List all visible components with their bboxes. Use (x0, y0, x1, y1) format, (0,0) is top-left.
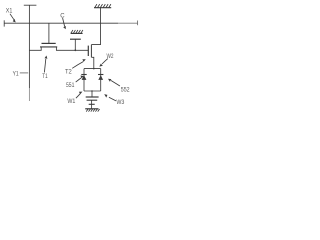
leader arrow from W2 to T2 source node (99, 59, 108, 67)
transistor T1 gate bar (42, 42, 56, 44)
wire: cell left branch (83, 69, 85, 91)
svg-text:551: 551 (66, 82, 75, 89)
terminal tick left end of word line (3, 20, 5, 26)
leader dash from Y1 to bit line (20, 72, 28, 74)
diode 552 triangle (98, 75, 103, 80)
wire: cell top rail (84, 68, 101, 70)
ground hatched bar (85, 109, 99, 112)
wire: T2 source lead down to cell (91, 57, 93, 68)
svg-text:T1: T1 (42, 73, 48, 80)
wire: word line X1 bus (4, 22, 118, 24)
svg-text:X1: X1 (6, 8, 13, 15)
svg-text:T2: T2 (65, 68, 72, 75)
transistor T2 gate bar (87, 46, 89, 56)
wire: stub from cell bottom to capacitor (91, 91, 93, 97)
diode 552 cathode bar (98, 74, 103, 76)
wire: T1 source lead to bit line (29, 47, 41, 50)
leader arrow from 551 to diode (76, 75, 84, 82)
transistor T2 channel (90, 45, 92, 58)
capacitor C hatched top electrode (71, 30, 83, 33)
svg-text:W3: W3 (116, 99, 124, 106)
wire: stub from capacitor to ground (91, 100, 93, 109)
junction dot at capacitor node (74, 49, 76, 51)
wire: bit line Y1 lower faded tail (28, 88, 30, 101)
storage capacitor bottom plate (87, 99, 98, 101)
wire: capacitor C stub to T1 drain node (74, 39, 76, 50)
storage capacitor top plate (86, 96, 99, 98)
terminal bar at top of bit line (24, 4, 37, 6)
svg-text:W1: W1 (67, 98, 75, 105)
capacitor C bottom plate (70, 38, 81, 40)
diode 551 triangle (82, 75, 87, 80)
wire: bit line Y1 vertical (28, 5, 30, 88)
wire: supply rail lead down to T2 drain (91, 8, 100, 45)
junction dot at cell bottom (91, 90, 93, 92)
leader arrow from C to capacitor (63, 18, 66, 29)
transistor T1 channel (40, 46, 57, 48)
leader arrow from T2 to transistor (72, 59, 86, 68)
junction dot at cell top (93, 68, 95, 70)
leader arrow from W3 to cell corner (104, 94, 116, 101)
supply rail hatched bar top right (94, 4, 111, 8)
leader arrow from 552 to diode (108, 79, 120, 86)
svg-text:552: 552 (121, 87, 130, 94)
wire: cell bottom rail (84, 90, 101, 92)
leader arrow from X1 to word line (10, 14, 16, 23)
terminal tick right end of word line (137, 21, 139, 26)
diode 551 cathode bar (81, 74, 86, 76)
wire: cell right branch (100, 69, 102, 91)
wire: T1 drain lead to node between C and T2 gate (56, 47, 88, 50)
ground upper short bar (89, 103, 95, 105)
leader arrow from W1 to cell corner (76, 92, 83, 99)
transistor T1 gate lead from word line (48, 23, 50, 43)
leader arrow from T1 to transistor (44, 56, 47, 73)
svg-text:Y1: Y1 (13, 71, 19, 78)
